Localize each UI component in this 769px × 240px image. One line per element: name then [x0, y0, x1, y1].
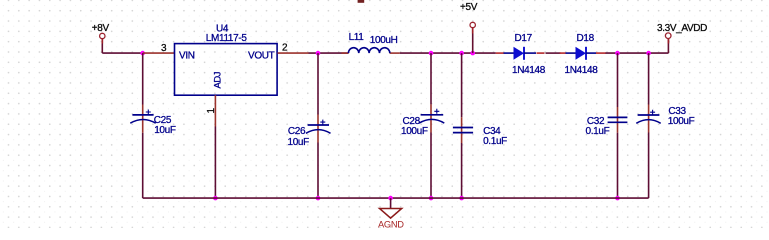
svg-text:0.1uF: 0.1uF [586, 126, 610, 137]
junction C32/bottom rail [615, 196, 620, 201]
svg-text:+8V: +8V [92, 23, 110, 34]
ground AGND [378, 198, 404, 229]
diode D18 [560, 33, 606, 76]
capacitor C28 [401, 109, 444, 137]
pin stubs L11 [342, 52, 349, 54]
svg-text:1: 1 [206, 108, 217, 114]
wire C34 branch [461, 53, 463, 117]
svg-text:ADJ: ADJ [212, 71, 223, 88]
svg-text:D17: D17 [515, 33, 533, 44]
wire C25 to bottom rail [142, 133, 144, 198]
wire C28 branch [430, 53, 432, 104]
svg-text:3.3V_AVDD: 3.3V_AVDD [657, 23, 707, 34]
junction +5V tap [470, 51, 475, 56]
pin stubs C33 [648, 105, 650, 133]
bottom rail wire [143, 197, 649, 199]
svg-text:+5V: +5V [460, 2, 478, 13]
power port +8V [92, 23, 110, 53]
clipped wire stub at top edge [358, 0, 365, 3]
power port +5V [460, 2, 478, 53]
junction C33 tap [646, 51, 651, 56]
svg-text:D18: D18 [577, 33, 595, 44]
wire L11 to D17 [400, 52, 496, 54]
wire pin2 to L11 [309, 52, 349, 54]
junction C28/bottom rail [429, 196, 434, 201]
svg-text:1N4148: 1N4148 [512, 65, 546, 76]
wire +8V to node A [102, 52, 142, 54]
svg-text:AGND: AGND [378, 219, 404, 228]
junction AGND tap [388, 196, 393, 201]
junction C28 tap [429, 51, 434, 56]
pin stubs C26 [317, 115, 319, 143]
svg-text:100uF: 100uF [401, 126, 428, 137]
svg-text:10uF: 10uF [154, 125, 176, 136]
svg-text:10uF: 10uF [288, 137, 310, 148]
node A junction [140, 51, 145, 56]
wire C33 to bottom rail [648, 133, 650, 199]
junction C34/bottom rail [459, 196, 464, 201]
regulator U4 LM1117-5 body [175, 44, 278, 96]
wire pin1 to bottom rail [214, 127, 216, 199]
svg-text:C26: C26 [288, 126, 306, 137]
capacitor C32 [586, 116, 628, 137]
capacitor C25 [130, 110, 176, 137]
svg-text:L11: L11 [349, 32, 365, 43]
svg-text:VOUT: VOUT [248, 51, 275, 62]
capacitor C33 [636, 106, 694, 127]
power port 3.3V_AVDD [657, 23, 707, 53]
wire D18 to node C [606, 52, 669, 54]
diode D17 [496, 33, 546, 76]
svg-text:0.1uF: 0.1uF [483, 136, 507, 147]
pin stubs C25 [142, 105, 144, 133]
pin stubs C34 [461, 117, 463, 143]
svg-text:VIN: VIN [179, 51, 195, 62]
svg-text:2: 2 [282, 43, 288, 54]
pin 1 stub of U4 (ADJ) [214, 95, 216, 126]
junction C34 tap [459, 51, 464, 56]
wire C32 to bottom rail [617, 133, 619, 198]
wire C34 to bottom rail [461, 143, 463, 198]
capacitor C26 [288, 120, 331, 148]
node B junction (C26 tap) [316, 51, 321, 56]
junction C26/bottom rail [316, 196, 321, 201]
svg-text:1N4148: 1N4148 [565, 65, 599, 76]
svg-text:C32: C32 [587, 116, 605, 127]
pin 2 stub of U4 [278, 52, 309, 54]
wire C32 branch [617, 53, 619, 107]
wire node B down to C26 [317, 53, 319, 114]
capacitor C34 [453, 126, 507, 147]
junction C32 tap [615, 51, 620, 56]
pin stubs C32 [617, 107, 619, 133]
svg-text:100uH: 100uH [370, 35, 398, 46]
wire C26 to bottom rail [317, 143, 319, 199]
svg-text:C28: C28 [403, 116, 421, 127]
wire C33 branch [648, 53, 650, 104]
pin 3 stub of U4 [143, 52, 175, 54]
wire C28 to bottom rail [430, 133, 432, 199]
wire node A down to C25 [142, 53, 144, 104]
wire D17 to D18 [546, 52, 561, 54]
pin stubs C28 [430, 104, 432, 132]
svg-text:100uF: 100uF [668, 116, 695, 127]
inductor L11 [348, 32, 397, 53]
svg-text:LM1117-5: LM1117-5 [206, 33, 248, 44]
svg-text:3: 3 [161, 43, 167, 54]
junction pin1/bottom rail [213, 196, 218, 201]
